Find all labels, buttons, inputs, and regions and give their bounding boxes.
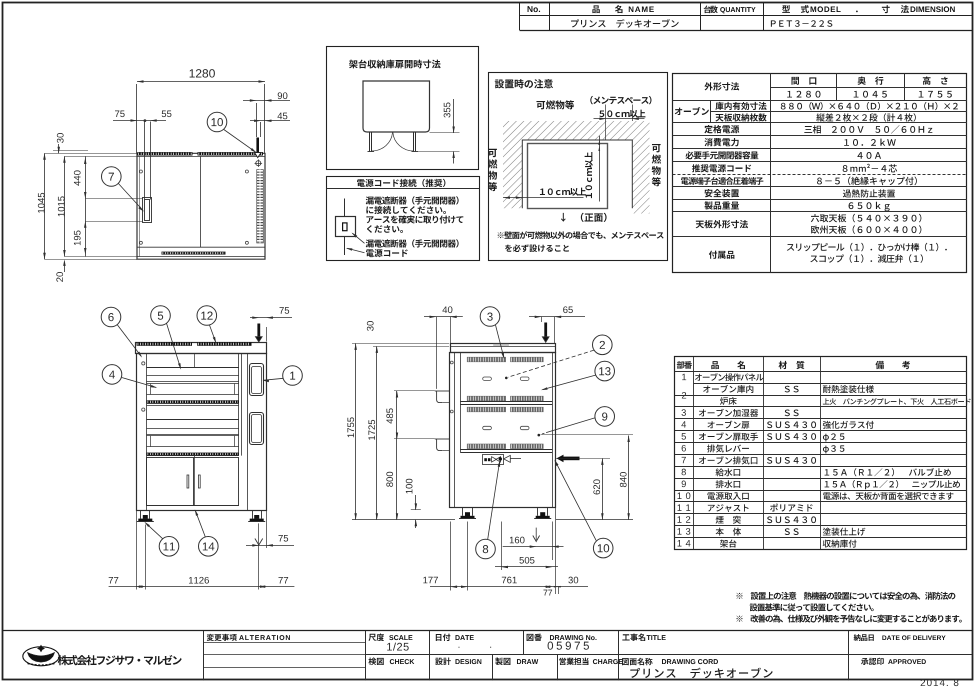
approved cell bbox=[861, 658, 884, 665]
power inlet circle bbox=[256, 161, 261, 166]
parts header bbox=[677, 361, 692, 369]
wall inner outline bbox=[522, 140, 632, 208]
side dim 65 top bbox=[541, 317, 543, 322]
parts row 1 4 bbox=[678, 540, 691, 546]
spec row 製品重量 bbox=[704, 201, 739, 209]
side dim 620 bbox=[556, 458, 610, 460]
top view right side vent grille bbox=[256, 169, 263, 243]
balloon 8 bbox=[476, 539, 496, 559]
front view control panel 2 bbox=[250, 413, 264, 445]
parts row 9 bbox=[682, 481, 686, 488]
parts row 3 bbox=[682, 409, 686, 416]
top view chimney slot lines bbox=[144, 122, 146, 200]
balloon 14 bbox=[199, 537, 219, 557]
company logo bbox=[23, 647, 59, 666]
label 可燃物等 left vertical bbox=[488, 149, 497, 157]
charge cell bbox=[559, 658, 588, 665]
spec row 推奨電源コード bbox=[692, 164, 751, 172]
leader 11 bbox=[146, 523, 163, 539]
front view cap comb strips bbox=[137, 342, 192, 346]
balloon 10 bbox=[593, 538, 613, 558]
front view control panel 1 bbox=[250, 364, 264, 396]
side dim 40 top bbox=[436, 317, 438, 389]
leader to breaker bbox=[353, 233, 365, 243]
balloon 4 bbox=[102, 365, 122, 385]
dim 50cm bbox=[605, 105, 607, 141]
leader 10 bbox=[224, 130, 256, 153]
leader 8 bbox=[488, 462, 500, 539]
delivery date cell bbox=[854, 634, 874, 641]
leader 13 bbox=[543, 375, 596, 390]
front dim 75 bottom drain arrow bbox=[258, 523, 260, 589]
open door left bbox=[369, 132, 371, 152]
front view body outline bbox=[137, 354, 267, 511]
leader 10 bbox=[555, 461, 596, 541]
open door right bbox=[413, 132, 415, 152]
label 可燃物等 top bbox=[536, 100, 574, 109]
side view legs and feet bbox=[462, 507, 464, 516]
dim 10cm vertical bbox=[585, 152, 593, 198]
front view left frame line bbox=[146, 353, 148, 511]
parts list table bbox=[675, 357, 967, 550]
parts row 1 1 bbox=[678, 504, 691, 510]
side view back wall line bbox=[552, 353, 554, 508]
storage cabinet top view bbox=[363, 81, 430, 132]
leader 5 bbox=[167, 323, 181, 368]
balloon 3 bbox=[480, 307, 500, 327]
title block frame bbox=[3, 630, 973, 632]
dim 10cm bottom bbox=[540, 188, 586, 196]
parts row 1 0 bbox=[678, 492, 691, 499]
scale cell bbox=[368, 634, 384, 642]
model PET3-22S bbox=[771, 20, 833, 27]
parts row None bbox=[720, 397, 737, 405]
side dim 485 bbox=[394, 390, 435, 392]
spec row 天板外形寸法 bbox=[696, 220, 748, 228]
water valve assembly bbox=[483, 455, 504, 465]
side view front wall lines bbox=[454, 353, 456, 508]
drawing number cell bbox=[527, 634, 542, 641]
front view deck sections bbox=[147, 367, 239, 369]
spec row 付属品 bbox=[709, 251, 735, 259]
side dim 100 bbox=[411, 509, 421, 511]
label 可燃物等 right vertical bbox=[652, 144, 661, 152]
front dim 75 top bbox=[257, 324, 260, 338]
leader 9 dashed bbox=[549, 418, 596, 432]
spec row 必要手元開閉器容量 bbox=[685, 151, 758, 159]
stand storage door-open dimension box bbox=[327, 47, 479, 170]
label 正面 front arrow bbox=[561, 213, 566, 222]
front view legs and feet bbox=[140, 511, 142, 519]
leader 14 bbox=[195, 511, 205, 537]
specification table bbox=[673, 74, 967, 273]
company name bbox=[58, 655, 182, 665]
parts row None bbox=[703, 385, 753, 393]
date cell bbox=[436, 634, 451, 641]
side view interior vents deck2 bbox=[467, 407, 506, 412]
title cell bbox=[622, 633, 645, 641]
header No. bbox=[528, 6, 541, 12]
door swing arcs bbox=[372, 133, 393, 152]
leader 4 bbox=[122, 378, 156, 388]
top view front vent slot bbox=[162, 252, 226, 255]
cabinet door handles bbox=[187, 475, 189, 488]
label メンテスペース bbox=[590, 96, 651, 104]
dim 355 bbox=[430, 132, 460, 134]
alteration cell bbox=[207, 634, 237, 641]
header 型式 MODEL 寸法 DIMENSION bbox=[782, 5, 790, 13]
front view center door line bbox=[194, 353, 196, 367]
top view body outline bbox=[137, 153, 265, 259]
spec row 外形寸法 bbox=[704, 82, 739, 90]
front view top cap bbox=[136, 343, 267, 354]
power cord connection box bbox=[327, 177, 480, 261]
side wall bolt circles bbox=[450, 361, 453, 364]
front view bolt circles bbox=[142, 362, 145, 365]
balloon 2 bbox=[593, 335, 613, 355]
side view top cap bbox=[451, 344, 556, 353]
check cell bbox=[368, 658, 383, 666]
side view interior vents deck1 bbox=[467, 357, 506, 362]
parts row 1 3 bbox=[678, 528, 691, 535]
side dim 1755 bbox=[355, 343, 357, 519]
side door handles bbox=[435, 390, 449, 392]
installation caution box bbox=[489, 73, 668, 261]
balloon 10 bbox=[207, 112, 227, 132]
leader 3 bbox=[496, 325, 504, 358]
dim 20 left-bottom bbox=[64, 262, 66, 273]
draw cell bbox=[495, 658, 510, 666]
side floor line bbox=[352, 519, 455, 521]
balloon 11 bbox=[159, 537, 179, 557]
side dim 800 bbox=[396, 439, 398, 520]
balloon 13 bbox=[595, 361, 615, 381]
balloon 7 bbox=[102, 167, 122, 187]
oven footprint bbox=[528, 144, 608, 209]
breaker cord line bbox=[344, 199, 346, 217]
footnote 1 bbox=[736, 592, 955, 600]
spec row 消費電力 bbox=[704, 138, 738, 146]
dim 75 55 top-left bbox=[113, 120, 166, 122]
side deck divider bbox=[460, 401, 552, 403]
balloon 12 bbox=[197, 306, 217, 326]
dim 440 195 left bbox=[85, 156, 87, 256]
balloon 6 bbox=[101, 307, 121, 327]
front bottom dims 77 1126 77 bbox=[136, 511, 138, 590]
front view deck divider lines bbox=[147, 403, 239, 405]
top view rear comb vent strip bbox=[137, 152, 192, 155]
leader to cord bbox=[347, 248, 365, 253]
header 台数 QUANTITY bbox=[704, 6, 718, 14]
leader 2 dashed bbox=[508, 350, 594, 377]
dim 1045 left bbox=[44, 153, 46, 259]
side chimney arrow top bbox=[544, 323, 547, 338]
caution note bbox=[498, 231, 664, 239]
balloon 5 bbox=[151, 306, 171, 326]
name/model table bbox=[519, 3, 521, 31]
side dim 160 bbox=[535, 528, 537, 540]
top view center divider bbox=[200, 156, 202, 247]
extension lines 1015 bbox=[64, 156, 137, 158]
dim 45 top-right bbox=[260, 122, 262, 137]
side bottom dims 177 761 30 bbox=[450, 522, 452, 591]
side dim 1725 bbox=[376, 346, 378, 519]
side dim 505 bbox=[501, 540, 503, 567]
parts row 4 bbox=[681, 421, 686, 427]
spec row 定格電源 bbox=[704, 125, 739, 133]
deck1 slots bbox=[483, 377, 492, 380]
leader 6 bbox=[117, 325, 141, 357]
product name プリンス デッキオーブン bbox=[571, 19, 679, 28]
deck2 slots bbox=[483, 426, 492, 429]
power inlet marker top view bbox=[256, 138, 259, 153]
dim 30 left bbox=[45, 153, 138, 155]
front view right column lines bbox=[238, 353, 240, 455]
parts row 1 2 bbox=[678, 516, 691, 523]
leader 12 bbox=[210, 325, 216, 342]
spec row 電源端子台適合圧着端子 bbox=[681, 177, 763, 185]
balloon 1 bbox=[283, 366, 303, 386]
power inlet arrow right bbox=[557, 455, 564, 463]
side dim 840 bbox=[541, 434, 634, 436]
drawing name cell bbox=[622, 658, 652, 665]
parts row2 number bbox=[682, 392, 686, 399]
leader 1 bbox=[264, 378, 284, 380]
breaker box bbox=[336, 217, 356, 237]
front view bottom rail bbox=[147, 505, 239, 507]
dim 90 top-right bbox=[256, 103, 258, 137]
parts row 7 bbox=[682, 457, 686, 463]
breaker note line1 bbox=[366, 196, 459, 204]
top view corner screws bbox=[139, 170, 142, 173]
oven exhaust item7 box bbox=[143, 198, 152, 223]
header 品名 NAME bbox=[592, 5, 599, 13]
parts row 1 bbox=[682, 374, 686, 380]
dim 1015 left bbox=[64, 156, 66, 256]
spec row オーブン bbox=[675, 107, 709, 115]
parts row 6 bbox=[682, 445, 686, 452]
top view front panel rounded bbox=[137, 246, 265, 248]
side view body outline bbox=[450, 353, 556, 508]
date stamp bbox=[921, 679, 959, 686]
parts row 8 bbox=[682, 469, 686, 476]
dim 1280 top bbox=[136, 84, 138, 153]
footnote 2 bbox=[736, 614, 961, 622]
leader 7 bbox=[118, 183, 143, 210]
parts row 5 bbox=[682, 433, 686, 440]
design cell bbox=[435, 658, 451, 666]
side dim 30 left top bbox=[352, 343, 449, 345]
spec row 安全装置 bbox=[705, 189, 739, 197]
balloon 9 bbox=[595, 407, 615, 427]
front view cabinet bbox=[147, 455, 239, 457]
side oven bottom line bbox=[460, 449, 552, 451]
